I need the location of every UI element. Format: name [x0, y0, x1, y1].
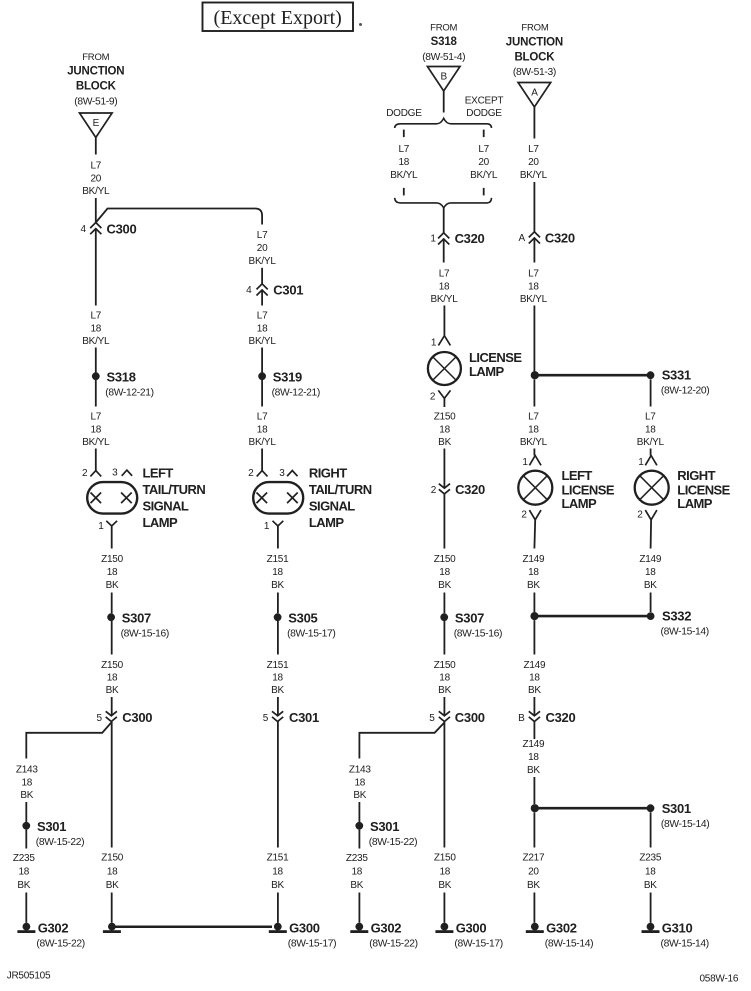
wire into splice S301 left — [25, 802, 27, 822]
svg-text:S301: S301 — [370, 819, 399, 834]
svg-text:18: 18 — [645, 867, 656, 878]
svg-text:G302: G302 — [371, 920, 402, 935]
wire junction to splice S331 — [534, 374, 650, 377]
svg-text:(8W-12-21): (8W-12-21) — [105, 388, 153, 399]
svg-text:LAMP: LAMP — [309, 515, 345, 530]
svg-text:L7: L7 — [478, 144, 489, 155]
svg-text:LAMP: LAMP — [143, 515, 179, 530]
svg-text:TAIL/TURN: TAIL/TURN — [309, 482, 372, 497]
wire Z217 below junction — [533, 812, 535, 847]
svg-text:Z235: Z235 — [346, 853, 368, 864]
svg-text:18: 18 — [21, 777, 32, 788]
dashed wire stub (EXCEPT DODGE) — [483, 188, 485, 196]
pin 2 of right tail/turn signal lamp — [257, 471, 268, 477]
wire below C301 pin 4 — [261, 290, 263, 306]
ground G302 (right) — [526, 920, 593, 949]
svg-text:Z235: Z235 — [13, 853, 35, 864]
pin number 2 — [521, 509, 527, 520]
connector C320 pin B — [518, 710, 575, 725]
wire into junction at S331 — [533, 306, 535, 372]
svg-text:BK: BK — [527, 880, 540, 891]
svg-text:L7: L7 — [90, 311, 101, 322]
svg-text:18: 18 — [18, 867, 29, 878]
svg-text:S305: S305 — [288, 610, 317, 625]
svg-text:C300: C300 — [455, 710, 485, 725]
svg-text:L7: L7 — [439, 269, 450, 280]
svg-text:(8W-15-14): (8W-15-14) — [661, 627, 709, 638]
wire Z235 below splice S301 right — [650, 812, 652, 847]
wire BK/YL from triangle E — [95, 138, 97, 155]
svg-text:L7: L7 — [257, 412, 268, 423]
svg-text:L7: L7 — [645, 412, 656, 423]
wire below splice S307 — [443, 621, 445, 655]
wire label Z217 20 BK — [523, 853, 545, 891]
svg-text:B: B — [440, 72, 447, 83]
svg-text:LEFT: LEFT — [562, 468, 593, 483]
svg-text:BK: BK — [20, 790, 33, 801]
svg-text:(8W-15-17): (8W-15-17) — [454, 938, 502, 949]
splice S318 — [92, 369, 154, 398]
svg-text:S307: S307 — [122, 610, 151, 625]
svg-text:BK: BK — [644, 580, 657, 591]
svg-text:1: 1 — [430, 234, 436, 245]
connector C320 pin 2 — [431, 482, 485, 497]
svg-text:FROM: FROM — [82, 52, 109, 63]
sheet code 058W-16 — [700, 974, 739, 985]
svg-text:C320: C320 — [545, 231, 575, 246]
svg-text:1: 1 — [431, 338, 437, 349]
dashed wire stub (DODGE) — [403, 130, 405, 138]
svg-text:Z143: Z143 — [16, 765, 38, 776]
wire label Z143 18 BK — [349, 765, 371, 802]
svg-text:1: 1 — [638, 457, 644, 468]
svg-text:18: 18 — [439, 281, 450, 292]
svg-text:18: 18 — [528, 567, 539, 578]
wire into C320 pin 2 — [443, 449, 445, 489]
wire label Z150 18 BK — [434, 853, 456, 891]
svg-text:1: 1 — [98, 521, 104, 532]
pin 1 of right license lamp — [645, 456, 657, 466]
wire below junction — [533, 379, 535, 406]
svg-text:18: 18 — [351, 867, 362, 878]
node: FROM JUNCTION BLOCK (8W-51-3) header — [506, 22, 563, 78]
wire label L7 18 BK/YL — [430, 269, 458, 306]
wire label Z150 18 BK — [434, 554, 456, 591]
wire L7 below splice S331 — [650, 379, 652, 406]
wire ground tie to G300 — [113, 925, 272, 928]
wire into junction at S332 — [533, 593, 535, 613]
svg-text:20: 20 — [90, 173, 101, 184]
svg-text:BK/YL: BK/YL — [637, 437, 665, 448]
wire Z151 below lamp — [277, 526, 279, 549]
svg-text:BK/YL: BK/YL — [520, 294, 548, 305]
wire label Z150 18 BK — [434, 660, 456, 696]
svg-text:18: 18 — [257, 424, 268, 435]
svg-text:18: 18 — [90, 424, 101, 435]
svg-text:BK: BK — [17, 880, 30, 891]
wire label L7 20 BK/YL — [82, 161, 110, 198]
svg-text:C320: C320 — [546, 710, 576, 725]
svg-text:L7: L7 — [398, 144, 409, 155]
connector C320 pin 1 — [430, 231, 484, 246]
junction node at S332 tie — [530, 612, 538, 620]
svg-text:BK: BK — [106, 685, 119, 696]
svg-text:BK: BK — [528, 685, 541, 696]
connector C300 pin 5 — [97, 710, 153, 725]
splice S331 — [647, 367, 710, 396]
dashed wire stub (DODGE) — [403, 188, 405, 196]
svg-text:18: 18 — [354, 777, 365, 788]
wire Z151 to ground — [277, 722, 279, 848]
wire label L7 18 BK/YL — [637, 412, 665, 449]
wire below C320 pin A — [533, 238, 535, 263]
pin 1 of license lamp — [438, 336, 450, 346]
connector C301 pin 4 — [246, 283, 303, 298]
svg-text:Z143: Z143 — [349, 765, 371, 776]
svg-text:L7: L7 — [90, 161, 101, 172]
svg-text:(8W-51-4): (8W-51-4) — [422, 52, 465, 63]
svg-text:BK/YL: BK/YL — [82, 336, 110, 347]
svg-text:FROM: FROM — [430, 22, 457, 33]
wire into C320 pin A — [533, 182, 535, 232]
svg-text:SIGNAL: SIGNAL — [143, 499, 189, 514]
svg-text:4: 4 — [246, 285, 252, 296]
svg-text:18: 18 — [528, 281, 539, 292]
pin number 2 — [248, 468, 254, 479]
wire into splice S307 — [111, 593, 113, 614]
svg-text:L7: L7 — [528, 412, 539, 423]
svg-text:18: 18 — [257, 323, 268, 334]
wire branch to splice S301 (center) — [359, 723, 444, 759]
node: FROM S318 (8W-51-4) header — [422, 22, 465, 62]
wire Z150 to ground G300 — [443, 722, 445, 848]
svg-text:DODGE: DODGE — [466, 108, 502, 119]
svg-text:LAMP: LAMP — [677, 496, 713, 511]
wire below C320 pin 1 — [443, 239, 445, 263]
pin 1 of left tail/turn signal lamp — [106, 521, 117, 526]
svg-text:JR505105: JR505105 — [7, 971, 51, 982]
svg-text:S331: S331 — [662, 367, 691, 382]
svg-text:BK: BK — [438, 880, 451, 891]
wire label Z150 18 BK — [101, 554, 123, 591]
wire into left license lamp pin 1 — [533, 449, 535, 456]
svg-text:Z149: Z149 — [639, 554, 661, 565]
wire label L7 18 BK/YL — [520, 269, 548, 306]
wire label L7 18 BK/YL — [82, 412, 110, 449]
wire label Z235 18 BK — [639, 853, 661, 891]
wire into C320 pin 1 — [443, 208, 445, 233]
wire label Z149 18 BK — [523, 739, 545, 776]
dashed wire stub (EXCEPT DODGE) — [483, 130, 485, 138]
wire Z149 below right license lamp — [650, 520, 653, 549]
wire into splice S305 — [277, 593, 279, 614]
svg-text:18: 18 — [529, 673, 540, 684]
ground G302 (center) — [350, 920, 417, 949]
ground G302 (left) — [17, 920, 84, 949]
svg-text:LAMP: LAMP — [562, 496, 598, 511]
node: FROM JUNCTION BLOCK (8W-51-9) header — [67, 52, 124, 108]
wire label Z149 18 BK — [639, 554, 661, 591]
svg-text:BK: BK — [438, 580, 451, 591]
wire into ground G300 center — [443, 893, 445, 923]
junction node at S331 tie — [531, 371, 539, 379]
svg-text:(8W-15-22): (8W-15-22) — [369, 837, 417, 848]
wire into splice S301 center — [358, 802, 360, 822]
svg-text:G302: G302 — [546, 920, 577, 935]
svg-text:Z235: Z235 — [639, 853, 661, 864]
pin 1 of left license lamp — [529, 456, 541, 466]
junction node at S301 tie — [531, 804, 539, 812]
svg-text:S319: S319 — [273, 369, 302, 384]
wire into ground G302 left — [25, 893, 27, 923]
svg-text:(8W-51-9): (8W-51-9) — [74, 97, 117, 108]
svg-text:(8W-15-16): (8W-15-16) — [121, 629, 169, 640]
brace merging DODGE / EXCEPT DODGE variants — [395, 198, 492, 208]
svg-text:TAIL/TURN: TAIL/TURN — [143, 482, 206, 497]
svg-text:Z149: Z149 — [523, 554, 545, 565]
wire label Z235 18 BK — [13, 853, 35, 891]
svg-text:RIGHT: RIGHT — [677, 468, 715, 483]
splice S301 (left) — [22, 819, 84, 848]
svg-text:(8W-15-14): (8W-15-14) — [545, 938, 593, 949]
label EXCEPT DODGE — [465, 95, 504, 119]
svg-text:Z150: Z150 — [434, 554, 456, 565]
wire into splice S318 — [95, 348, 97, 373]
svg-text:058W-16: 058W-16 — [700, 974, 739, 985]
stray dot near title box — [359, 23, 362, 26]
svg-text:18: 18 — [645, 424, 656, 435]
off-page connector E (from junction block) — [80, 113, 113, 138]
svg-text:BK/YL: BK/YL — [249, 336, 277, 347]
svg-text:A: A — [531, 88, 538, 99]
wire junction to splice S301 — [534, 807, 650, 810]
brace splitting DODGE / EXCEPT DODGE variants — [395, 118, 492, 128]
pin number 1 — [638, 457, 644, 468]
svg-text:5: 5 — [97, 713, 103, 724]
wire label Z143 18 BK — [16, 765, 38, 802]
pin 2 of left license lamp — [529, 510, 541, 520]
svg-text:BK/YL: BK/YL — [430, 294, 458, 305]
wire into right license lamp pin 1 — [650, 449, 652, 456]
wire from triangle B — [443, 91, 445, 113]
wire label L7 18 BK/YL — [249, 412, 277, 449]
svg-text:BK: BK — [527, 765, 540, 776]
wire into splice S319 — [261, 348, 263, 373]
splice S332 — [647, 609, 709, 638]
wire into ground G300 — [277, 893, 279, 923]
wire into lamp pin 2 — [95, 449, 97, 471]
wire below splice S305 — [277, 621, 279, 655]
connector C300 pin 4 — [81, 222, 137, 237]
svg-text:18: 18 — [90, 323, 101, 334]
svg-text:Z150: Z150 — [101, 554, 123, 565]
svg-text:4: 4 — [81, 224, 87, 235]
connector C300 pin 5 (center) — [429, 710, 485, 725]
svg-text:BK/YL: BK/YL — [82, 186, 110, 197]
svg-text:BK: BK — [353, 790, 366, 801]
wire label Z150 18 BK — [101, 660, 123, 696]
svg-text:Z151: Z151 — [267, 660, 289, 671]
svg-text:BK: BK — [271, 580, 284, 591]
svg-text:BLOCK: BLOCK — [514, 51, 555, 63]
svg-text:(8W-15-22): (8W-15-22) — [369, 938, 417, 949]
svg-text:G300: G300 — [289, 920, 320, 935]
svg-text:3: 3 — [112, 468, 118, 479]
wire label Z151 18 BK — [267, 660, 289, 696]
pin 2 of left tail/turn signal lamp — [90, 471, 101, 477]
svg-text:C301: C301 — [289, 710, 319, 725]
wire into junction at S301 — [533, 777, 535, 804]
svg-text:20: 20 — [528, 157, 539, 168]
wire label L7 18 BK/YL (DODGE) — [390, 144, 418, 181]
svg-text:L7: L7 — [90, 412, 101, 423]
svg-text:C320: C320 — [455, 231, 485, 246]
svg-text:RIGHT: RIGHT — [309, 466, 347, 481]
wire into ground node — [111, 893, 113, 923]
svg-text:S301: S301 — [37, 819, 66, 834]
wire into C301 pin 5 — [277, 697, 279, 716]
wire label Z235 18 BK — [346, 853, 368, 891]
lamp: RIGHT TAIL/TURN SIGNAL LAMP — [253, 466, 372, 531]
wire below splice S307 — [111, 621, 113, 655]
svg-text:1: 1 — [264, 521, 270, 532]
svg-text:G310: G310 — [662, 920, 693, 935]
pin 1 of right tail/turn signal lamp — [273, 521, 284, 526]
wire label L7 18 BK/YL — [249, 311, 277, 348]
svg-text:BK: BK — [350, 880, 363, 891]
lamp: LEFT TAIL/TURN SIGNAL LAMP — [87, 466, 205, 531]
svg-text:FROM: FROM — [521, 22, 548, 33]
svg-text:Z150: Z150 — [434, 853, 456, 864]
wire label L7 20 BK/YL — [249, 230, 277, 267]
svg-text:LAMP: LAMP — [469, 364, 505, 379]
wire label Z151 18 BK — [267, 853, 289, 891]
svg-text:C300: C300 — [122, 710, 152, 725]
svg-text:Z150: Z150 — [101, 660, 123, 671]
svg-text:G302: G302 — [38, 920, 69, 935]
wire label Z149 18 BK — [523, 554, 545, 591]
svg-text:(8W-12-20): (8W-12-20) — [661, 385, 709, 396]
svg-text:18: 18 — [439, 867, 450, 878]
svg-text:LEFT: LEFT — [143, 466, 174, 481]
wire label L7 18 BK/YL — [82, 311, 110, 348]
svg-text:Z217: Z217 — [523, 853, 545, 864]
wire into ground G302 center — [358, 893, 360, 923]
svg-text:BK: BK — [438, 437, 451, 448]
wire into C320 pin B — [533, 697, 535, 716]
wire into C301 pin 4 — [261, 268, 263, 284]
svg-text:BK: BK — [106, 880, 119, 891]
svg-text:5: 5 — [429, 713, 435, 724]
svg-text:DODGE: DODGE — [386, 108, 422, 119]
svg-text:L7: L7 — [528, 144, 539, 155]
svg-text:18: 18 — [107, 867, 118, 878]
svg-text:Z151: Z151 — [267, 853, 289, 864]
svg-text:E: E — [93, 118, 100, 129]
svg-text:18: 18 — [528, 752, 539, 763]
pin number 3 — [112, 468, 118, 479]
svg-text:(8W-15-14): (8W-15-14) — [661, 938, 709, 949]
svg-text:SIGNAL: SIGNAL — [309, 499, 355, 514]
svg-text:(8W-15-22): (8W-15-22) — [36, 938, 84, 949]
ground node (ties to G300) — [103, 923, 121, 933]
svg-text:S307: S307 — [455, 610, 484, 625]
svg-text:2: 2 — [430, 392, 436, 403]
sheet code JR505105 — [7, 971, 51, 982]
wire into splice S307 — [443, 593, 445, 614]
wire into ground G310 — [650, 893, 652, 923]
wire Z149 below left license lamp — [533, 520, 536, 549]
splice S307 (center) — [440, 610, 502, 639]
splice S305 — [274, 610, 336, 639]
wire below splice S301 left — [25, 830, 27, 849]
wire below splice S301 center — [358, 830, 360, 849]
title box (Except Export) — [203, 3, 354, 32]
svg-text:(Except Export): (Except Export) — [214, 7, 342, 29]
svg-text:18: 18 — [439, 673, 450, 684]
splice S301 (center) — [355, 819, 417, 848]
connector C301 pin 5 — [263, 710, 319, 725]
svg-text:(8W-15-22): (8W-15-22) — [36, 837, 84, 848]
svg-text:BK/YL: BK/YL — [249, 437, 277, 448]
pin number 3 — [279, 468, 285, 479]
wire label Z149 18 BK — [524, 660, 546, 696]
splice S307 — [107, 610, 169, 639]
pin number 1 — [98, 521, 104, 532]
pin number 1 — [522, 457, 528, 468]
svg-text:L7: L7 — [257, 230, 268, 241]
svg-text:BK/YL: BK/YL — [470, 170, 498, 181]
svg-text:2: 2 — [82, 468, 88, 479]
wire into C300 pin 5 — [111, 697, 113, 716]
svg-text:C301: C301 — [273, 283, 303, 298]
pin 3 (unused) of right tail/turn signal lamp — [287, 471, 297, 477]
label DODGE — [386, 108, 422, 119]
svg-text:BK: BK — [271, 880, 284, 891]
svg-text:(8W-15-17): (8W-15-17) — [287, 629, 335, 640]
svg-text:L7: L7 — [528, 269, 539, 280]
svg-text:(8W-15-14): (8W-15-14) — [661, 819, 709, 830]
pin number 2 — [430, 392, 436, 403]
svg-text:L7: L7 — [257, 311, 268, 322]
svg-text:EXCEPT: EXCEPT — [465, 95, 504, 106]
wire label L7 20 BK/YL (EXCEPT DODGE) — [470, 144, 498, 181]
svg-text:2: 2 — [248, 468, 254, 479]
svg-text:18: 18 — [528, 424, 539, 435]
wire label Z150 18 BK — [101, 853, 123, 891]
svg-text:18: 18 — [107, 673, 118, 684]
svg-text:BK: BK — [438, 685, 451, 696]
svg-text:BK/YL: BK/YL — [390, 170, 418, 181]
wire Z150 below lamp — [111, 526, 113, 549]
lamp: LEFT LICENSE LAMP — [518, 468, 615, 511]
svg-text:Z151: Z151 — [267, 554, 289, 565]
wire branch to right tail lamp feed — [96, 209, 262, 225]
pin 3 (unused) of left tail/turn signal lamp — [122, 470, 132, 476]
ground G310 — [642, 920, 709, 949]
svg-text:B: B — [518, 713, 525, 724]
pin number 1 — [264, 521, 270, 532]
connector C320 pin A — [518, 231, 574, 246]
wire Z149 below C320 pin B — [533, 722, 535, 740]
svg-text:Z150: Z150 — [434, 412, 456, 423]
svg-text:18: 18 — [272, 567, 283, 578]
lamp: LICENSE LAMP — [428, 350, 522, 385]
svg-text:BK: BK — [271, 685, 284, 696]
svg-text:A: A — [518, 233, 525, 244]
splice S319 — [258, 369, 320, 398]
svg-text:(8W-15-16): (8W-15-16) — [454, 629, 502, 640]
